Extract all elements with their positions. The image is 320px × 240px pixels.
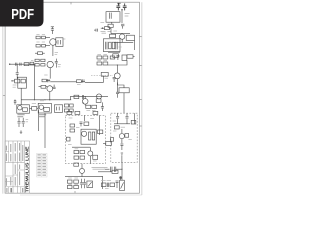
capacitor C5 [94,29,97,32]
resistor R4 [110,34,116,37]
wire [98,115,100,135]
capacitor C25 [80,179,83,188]
wire left rail [33,64,35,100]
capacitor C19 [101,102,104,111]
transistor Q4 [47,61,53,67]
capacitor C16 [18,118,21,127]
wire collector row [114,41,133,43]
resistor R70 [21,79,25,83]
resistor R67 [24,63,29,66]
resistor R20 [35,52,45,55]
wire top row [110,28,112,33]
capacitor C23 [120,144,123,150]
resistor R36 [70,104,74,107]
capacitor C11 input [51,27,54,34]
wire input [10,63,35,65]
resistor R56 [125,134,129,138]
capacitor C13 [48,79,49,82]
level pot VR5 [120,180,125,190]
resistor R66 [110,183,115,187]
label [32,103,36,105]
capacitor C3 [109,13,111,19]
resistor R57 [110,138,113,142]
junction dot A [121,9,122,10]
svg-text:PDF: PDF [11,7,34,23]
rate pot VR3 [103,142,111,146]
junction dot [11,80,12,81]
wire loop [18,77,27,88]
resistor R68 [30,61,34,65]
transistor Q1 [120,34,125,43]
wire [45,37,50,39]
wire [82,102,84,104]
resistor R21 [35,59,39,61]
resistor R3 [101,27,111,30]
label [121,126,125,128]
transistor Q12 [119,129,124,143]
wire right branch [133,40,135,50]
junction dots [34,33,123,177]
resistor R44 [70,124,75,127]
lamp stage box [17,105,30,113]
capacitor C1 [116,3,120,10]
resistor R60 [67,180,72,183]
resistor R50 [74,150,79,153]
value label 10k [101,31,112,33]
opto stage box [38,103,51,113]
resistor R54 [93,155,98,159]
value labels [36,34,45,42]
resistor R38 [70,109,74,112]
resistor R41 [75,111,80,114]
shield dashed [91,75,113,77]
resistor R45 [70,129,75,132]
transistor Q5 [47,86,53,92]
resistor R16 [36,36,40,39]
resistor R1 [106,12,120,23]
label [86,109,95,111]
transistor Q7 [18,106,22,110]
transistor Q11 [88,147,93,163]
resistor R2 [108,24,113,27]
wire [108,51,120,53]
wire [114,123,130,125]
capacitor C6 [106,42,107,50]
resistor R7 [112,42,115,49]
label [40,100,44,102]
sheet border frame (decorative) [3,2,142,193]
junction dot [49,99,50,100]
PDF badge [0,0,44,27]
title block small text marks [6,143,24,192]
transistor Q10 [82,131,87,136]
wire [38,110,40,131]
transistor Q6 [39,105,43,109]
wire signal [50,81,76,83]
resistor R52 [74,156,79,159]
resistor R30 [23,108,28,112]
resistor R18 [36,44,40,47]
resistor R34 [92,105,97,108]
resistor R15 [122,55,127,60]
wire bottom bus [65,176,102,178]
resistor R13 [103,62,108,65]
value label [55,52,58,54]
capacitor C21 [116,113,119,124]
wire bus [111,33,130,35]
ground mark [121,153,123,162]
junction dot [14,100,15,101]
trimmer VR1 [56,38,63,47]
stray value labels [26,22,132,188]
resistor R10 [97,56,102,59]
resistor R11 [103,56,108,59]
value labels [97,55,107,61]
resistor R24 [41,64,45,66]
wire loop LFO [81,129,96,144]
resistor R5 [126,35,134,40]
wire rail down [121,10,123,23]
label row [92,167,108,169]
capacitor C28 [116,181,119,188]
wire [111,22,113,24]
wire mid bus [70,96,108,98]
capacitor C10 [116,83,119,98]
wire [49,92,51,100]
wire [20,96,22,105]
transistor Q9 [97,94,102,99]
resistor R19 [42,44,46,47]
label [101,180,111,182]
value label [13,85,17,87]
wire [85,76,104,83]
wire [101,177,103,189]
resistor R59 [74,163,79,166]
resistor R42 [93,111,98,114]
resistor R64 [98,170,118,173]
junction dot B [102,28,103,29]
resistor R40 [67,111,72,114]
node +9V supply rail [117,3,121,5]
resistor R62 [67,185,72,188]
resistor R17 [42,36,46,39]
resistor R61 [74,180,79,183]
ground [20,130,22,133]
capacitor C14 [83,79,84,82]
resistor R43 [84,122,89,125]
resistor R63 [74,185,79,188]
resistor R28 [39,85,48,88]
wire LFO feed [44,113,46,148]
title block [5,141,29,193]
input jack node [9,63,10,64]
resistor R39 [96,99,101,103]
resistor R29 [44,108,50,112]
capacitor C7 [116,42,117,50]
transistor Q13 [80,164,85,177]
resistor R22 [41,59,45,61]
resistor R26 [77,80,86,83]
capacitor C26 [83,179,86,188]
capacitor C8 [116,55,119,60]
resistor R69 [15,79,20,83]
resistor R55 [114,126,119,129]
resistor R33 [86,105,91,108]
capacitor C31 [16,73,19,79]
capacitor C4 [121,24,124,28]
capacitor C27 [107,183,108,187]
capacitor C9 [113,77,116,82]
transistor Q8 [82,97,88,106]
LED D1 [119,176,122,180]
capacitor C20 [80,122,83,126]
capacitor C2 [123,3,127,10]
resistor R6 [109,42,112,49]
resistor R47 [89,132,91,140]
resistor R27 [101,72,108,76]
value label 100k [125,14,130,17]
capacitor C22 [126,113,129,124]
resistor R46 [66,137,70,141]
resistor R37 [64,109,68,112]
capacitor C15 [53,85,56,89]
resistor R8 [113,54,119,58]
part labels [17,115,46,117]
wire pulldown [16,64,18,72]
capacitor C17 [22,118,25,127]
wire [45,45,50,47]
resistor R35 [64,104,68,107]
resistor R32 [74,95,79,98]
wire [72,146,90,148]
resistor R14 [110,56,115,59]
capacitor C12 [55,59,58,68]
capacitor C30 [20,63,21,66]
svg-text:TREMULUS LUNE: TREMULUS LUNE [25,146,30,192]
wire [52,45,54,56]
resistor R25 [42,79,50,82]
capacitor C18 [82,95,83,99]
resistor R65 [101,183,106,187]
opto box U2 [54,105,62,113]
wire long horizontal [21,99,71,101]
wire loop [103,39,120,52]
transistor Q3 [50,39,57,46]
wire [134,113,136,124]
resistor R51 [80,150,85,153]
capacitor C24 back-to-back [104,162,122,180]
resistor R49 [98,130,103,134]
LFO dashed box 1 [65,115,105,163]
parts table [37,153,47,177]
wire [12,80,15,82]
gain pot VR4 [87,181,93,188]
wire [84,115,86,121]
LFO dashed box 2 [111,113,137,162]
capacitor C29 [16,63,17,66]
resistor R12 [97,62,102,65]
resistor R58 [131,120,136,124]
capacitor C32 [14,101,17,105]
wire emitter [49,68,51,79]
resistor R9 [127,55,135,58]
resistor R53 [80,156,85,159]
depth pot VR2 [117,83,129,114]
wire to lamp stage [20,88,22,95]
transistor Q2 [114,65,120,83]
resistor R48 [92,132,94,140]
resistor R31 [30,107,39,111]
wire [108,60,127,65]
resistor R23 [35,64,39,66]
wire [70,97,72,100]
